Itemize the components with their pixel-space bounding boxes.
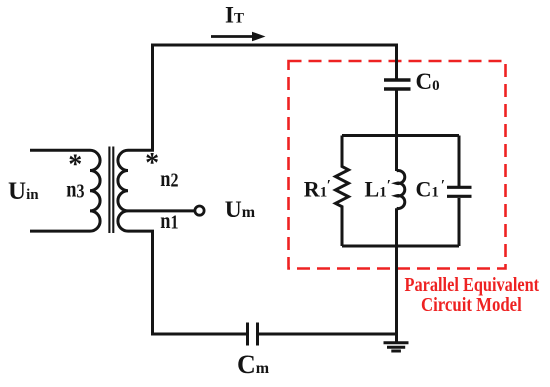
svg-text:Um: Um bbox=[225, 197, 256, 223]
svg-text:C1′: C1′ bbox=[416, 177, 446, 202]
svg-text:n2: n2 bbox=[160, 165, 178, 192]
svg-text:C0: C0 bbox=[416, 69, 440, 94]
svg-text:Uin: Uin bbox=[8, 178, 39, 205]
svg-text:Parallel Equivalent: Parallel Equivalent bbox=[405, 273, 540, 295]
svg-text:IT: IT bbox=[225, 3, 244, 28]
svg-text:Circuit Model: Circuit Model bbox=[421, 294, 522, 316]
svg-text:*: * bbox=[68, 149, 82, 180]
svg-text:n1: n1 bbox=[160, 207, 178, 234]
svg-text:Cm: Cm bbox=[237, 350, 270, 379]
svg-text:R1′: R1′ bbox=[304, 177, 331, 202]
svg-text:L1′: L1′ bbox=[365, 177, 391, 202]
svg-text:*: * bbox=[145, 148, 159, 179]
